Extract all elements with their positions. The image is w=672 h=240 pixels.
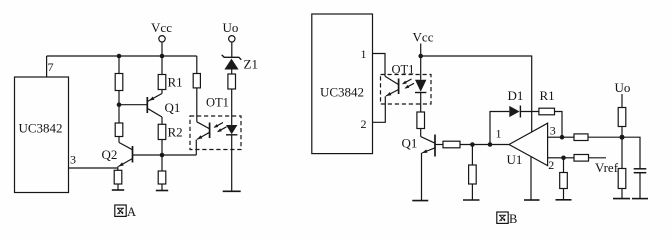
- optocoupler OT1 (B) box: [381, 75, 432, 105]
- wire Q1 base: [435, 144, 443, 146]
- wire node2 down: [563, 158, 565, 173]
- resistor (lower left, unlabeled): [115, 123, 123, 137]
- svg-text:A: A: [127, 205, 136, 219]
- zener Z1: [222, 55, 258, 74]
- wire: [118, 137, 120, 143]
- wire to Vref terminal: [589, 157, 607, 159]
- optocoupler OT1 (A) box: [190, 116, 241, 150]
- ground (Q1 emitter B): [412, 200, 428, 202]
- light arrows of OT1 (B): [402, 79, 414, 89]
- LED of OT1 (A): [226, 125, 237, 191]
- svg-text:OT1: OT1: [206, 96, 229, 110]
- node base row 2 (D1 anode): [488, 142, 493, 147]
- wire: [563, 189, 565, 200]
- resistor (Uo upper, unlabeled): [618, 108, 626, 127]
- ground (mid branch B): [463, 199, 480, 201]
- resistor R1 (B): [539, 88, 555, 115]
- node pin 2: [561, 156, 566, 161]
- wire junction to capacitor: [622, 137, 640, 169]
- node Vcc rail (B): [418, 54, 423, 59]
- terminal Uo (B): [615, 80, 631, 108]
- op-amp U1: [496, 123, 556, 172]
- ground (middle branch A): [156, 190, 168, 192]
- svg-text:Uo: Uo: [223, 20, 239, 35]
- wire Vcc rail (B): [421, 56, 532, 132]
- caption 图A: [115, 205, 136, 219]
- svg-text:Vcc: Vcc: [413, 30, 434, 45]
- wire pin 3 stub: [548, 136, 562, 138]
- node junction (Uo divider): [620, 135, 625, 140]
- svg-text:B: B: [509, 212, 517, 226]
- ground (capacitor): [632, 198, 648, 200]
- svg-text:Vref: Vref: [595, 160, 619, 175]
- LED of OT1 (B): [415, 56, 426, 112]
- svg-text:Vcc: Vcc: [151, 20, 172, 35]
- wire to Q1 collector: [420, 129, 422, 137]
- resistor R1 (A): [158, 56, 182, 90]
- capacitor C1: [634, 169, 647, 199]
- node below R2: [160, 153, 165, 158]
- svg-text:2: 2: [548, 158, 554, 172]
- wire to junction: [588, 136, 622, 138]
- wire: [621, 127, 623, 138]
- resistor (below node, unlabeled): [158, 171, 166, 184]
- ground (below node2): [556, 199, 572, 201]
- resistor (right branch A, unlabeled): [193, 74, 200, 88]
- resistor (mid branch B, unlabeled): [469, 165, 477, 184]
- terminal Vcc (B): [413, 30, 434, 57]
- svg-text:2: 2: [361, 117, 367, 131]
- wire emitter junction down: [117, 167, 119, 171]
- svg-text:R2: R2: [168, 125, 183, 140]
- ground (U1): [524, 199, 540, 201]
- svg-text:U1: U1: [507, 152, 523, 167]
- ground (LED branch A): [223, 190, 241, 192]
- resistor (output row, unlabeled): [574, 134, 588, 141]
- wire left branch upper: [118, 56, 120, 74]
- phototransistor of OT1 (A): [196, 122, 209, 155]
- transistor Q1 (B): [402, 135, 436, 201]
- resistor (Z1 branch, unlabeled): [228, 74, 236, 89]
- resistor (Q1 base, unlabeled): [443, 141, 460, 148]
- ground (Q2 branch): [112, 189, 124, 191]
- wire node to Q2 base: [133, 154, 163, 156]
- svg-text:Uo: Uo: [615, 80, 631, 95]
- node base feed Q1: [117, 102, 122, 107]
- resistor (below LED, unlabeled): [417, 112, 425, 129]
- wire base row to U1: [460, 144, 509, 146]
- ground (Uo divider): [613, 198, 630, 200]
- wire: [117, 184, 119, 190]
- wire pin 7 to rail: [46, 56, 48, 77]
- svg-text:OT1: OT1: [392, 63, 415, 77]
- wire node down: [471, 145, 473, 166]
- resistor (Vref row, unlabeled): [574, 155, 589, 162]
- svg-text:Q2: Q2: [102, 147, 118, 162]
- wire to LED: [231, 89, 233, 125]
- wire pin 2: [373, 96, 386, 122]
- resistor (upper left, unlabeled): [115, 74, 123, 91]
- node base row 1: [470, 142, 475, 147]
- diode D1: [508, 88, 524, 118]
- resistor R2 (A): [158, 124, 182, 155]
- wire pin 2 stub: [548, 157, 564, 159]
- node rail-left: [117, 54, 122, 59]
- wire pin 1: [373, 54, 386, 77]
- svg-text:R1: R1: [168, 75, 183, 90]
- IC UC3842 (B): [312, 14, 373, 154]
- wire base Q1: [119, 104, 147, 106]
- wire node to optocoupler emitter: [162, 154, 196, 156]
- transistor Q1: [147, 90, 180, 125]
- wire node down: [161, 155, 163, 171]
- IC UC3842 (A): [15, 77, 69, 193]
- caption 图B: [497, 212, 518, 226]
- svg-text:Z1: Z1: [244, 57, 258, 72]
- light arrows of OT1 (A): [214, 123, 227, 133]
- wire D1 anode up: [490, 112, 509, 145]
- svg-text:D1: D1: [508, 88, 524, 103]
- resistor (below node2, unlabeled): [560, 173, 568, 189]
- wire into optocoupler: [196, 88, 198, 122]
- terminal Uo (A): [223, 20, 239, 57]
- svg-text:R1: R1: [540, 88, 555, 103]
- svg-text:UC3842: UC3842: [18, 121, 62, 136]
- phototransistor of OT1 (B): [385, 76, 399, 96]
- wire D1 to R1: [520, 111, 539, 113]
- svg-text:Q1: Q1: [402, 136, 418, 151]
- svg-text:1: 1: [361, 47, 367, 61]
- wire: [118, 91, 120, 124]
- svg-text:7: 7: [48, 60, 54, 74]
- wire junction down: [621, 137, 623, 168]
- node pin 3: [560, 135, 565, 140]
- wire: [471, 184, 473, 200]
- svg-text:UC3842: UC3842: [320, 85, 364, 100]
- wire right branch from rail: [196, 56, 198, 74]
- svg-text:3: 3: [70, 153, 76, 167]
- svg-text:Q1: Q1: [165, 100, 181, 115]
- node rail-Vcc: [160, 54, 165, 59]
- wire: [621, 189, 623, 199]
- wire node3 to resistor: [562, 136, 574, 138]
- wire R1 to node 3: [555, 112, 563, 138]
- resistor (Uo lower, unlabeled): [618, 169, 626, 189]
- wire: [161, 184, 163, 190]
- svg-text:3: 3: [550, 124, 556, 138]
- resistor (below Q2, unlabeled): [114, 170, 122, 184]
- wire pin 3: [69, 167, 118, 169]
- wire Vcc top rail (A): [47, 55, 197, 57]
- terminal Vcc (A): [151, 20, 172, 56]
- wire node2 to resistor: [564, 157, 575, 159]
- svg-text:1: 1: [496, 127, 502, 141]
- transistor Q2: [102, 143, 133, 167]
- wire U1 ground: [530, 157, 532, 200]
